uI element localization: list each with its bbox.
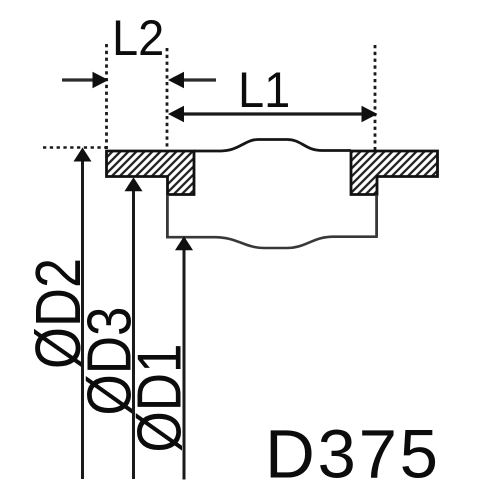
extension line (dotted, left wall x=167) [166,48,169,149]
dimension line OD3 (arrow up) [125,177,143,479]
L2 left arrow [62,72,109,88]
left wall line [166,195,169,237]
extension line (dotted, flange outer left edge x=106) [105,44,108,149]
dome top profile [194,140,351,152]
left flange section (hatched) [107,151,195,195]
right wall line [375,195,378,237]
L2 right arrow [168,72,216,88]
dimension line OD2 (arrow up) [74,148,92,480]
extension line (dotted, right wall x=375) [374,45,377,150]
svg-text:L1: L1 [238,63,290,119]
right flange section (hatched) [351,151,438,195]
L1 dimension line with arrows [168,106,378,122]
dimension line OD1 (arrow up) [175,236,193,479]
svg-text:ØD1: ØD1 [125,344,194,453]
extension line (dotted horizontal, OD2 level y=147.5) [43,146,106,149]
bottom profile [166,237,378,248]
svg-text:L2: L2 [112,11,164,67]
svg-text:D375: D375 [265,416,441,493]
